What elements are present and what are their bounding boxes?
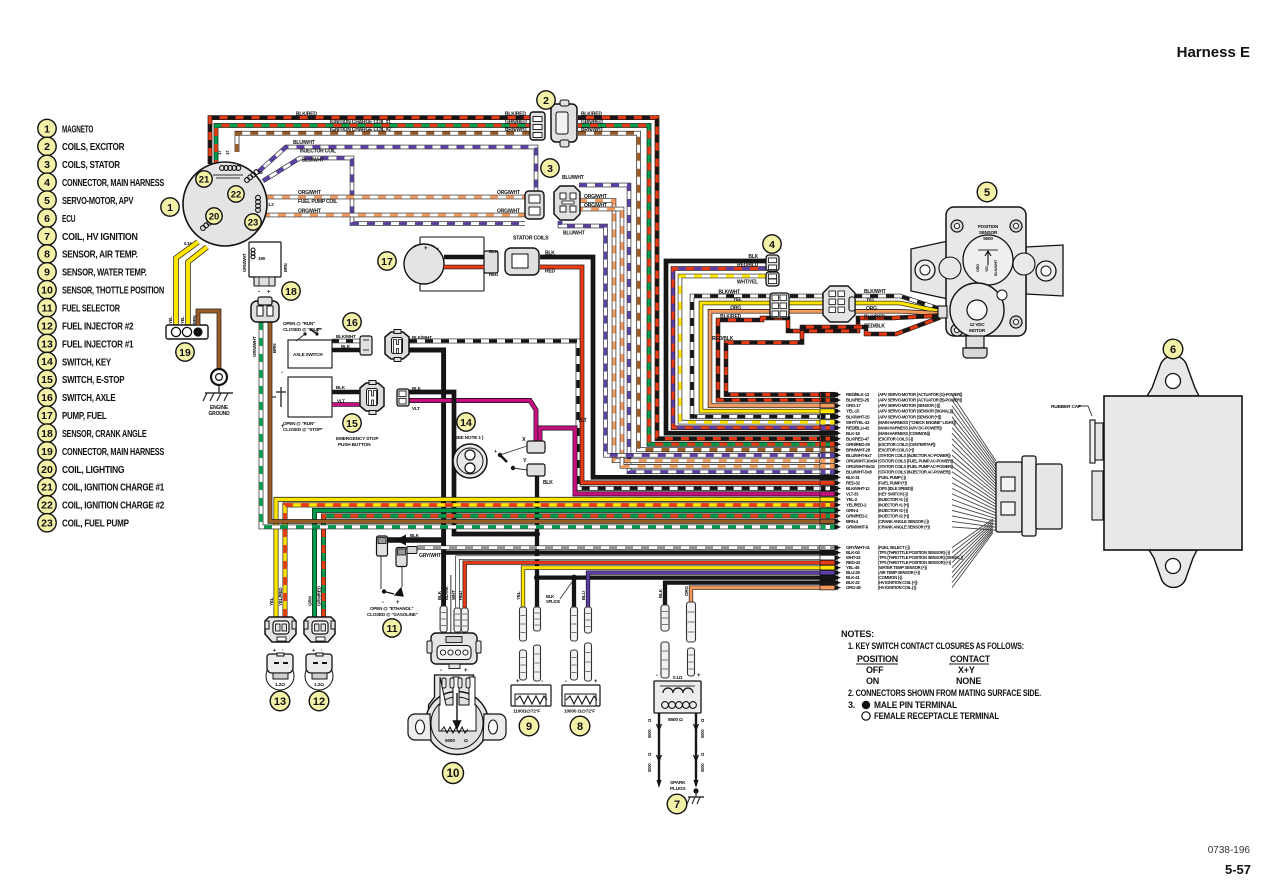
svg-text:IGNITION CHARGE COIL #2: IGNITION CHARGE COIL #2 xyxy=(330,127,391,133)
svg-text:2: 2 xyxy=(543,95,549,107)
svg-text:MAGNETO: MAGNETO xyxy=(62,124,93,135)
sensor water temp (9) xyxy=(520,607,527,641)
svg-text:17: 17 xyxy=(225,150,230,155)
svg-text:VLT: VLT xyxy=(412,406,420,411)
wire ORG/WHT fuel pump coil lower xyxy=(266,213,525,218)
svg-text:12: 12 xyxy=(313,696,325,708)
svg-text:EMERGENCY STOP: EMERGENCY STOP xyxy=(336,436,379,442)
svg-text:15: 15 xyxy=(41,374,53,386)
svg-text:BLK: BLK xyxy=(543,480,553,486)
svg-text:BLK: BLK xyxy=(341,344,351,349)
svg-text:21: 21 xyxy=(199,174,210,185)
svg-text:SENSOR, AIR TEMP.: SENSOR, AIR TEMP. xyxy=(62,250,138,261)
svg-text:-: - xyxy=(541,679,543,685)
key switch X terminal xyxy=(527,441,545,453)
svg-text:1: 1 xyxy=(167,202,173,214)
svg-text:COILS, STATOR: COILS, STATOR xyxy=(62,160,121,171)
svg-text:( SEE NOTE 1 ): ( SEE NOTE 1 ) xyxy=(452,435,484,441)
pump wires short xyxy=(444,255,484,260)
svg-text:190: 190 xyxy=(258,256,266,261)
svg-text:6: 6 xyxy=(1170,344,1176,356)
svg-text:16: 16 xyxy=(41,392,53,404)
svg-text:VLT: VLT xyxy=(578,418,587,424)
svg-text:BLK/WHT: BLK/WHT xyxy=(718,290,740,296)
svg-text:14: 14 xyxy=(460,417,472,429)
svg-text:Ω: Ω xyxy=(464,738,468,744)
svg-text:ON: ON xyxy=(866,676,879,686)
svg-text:ORG-17: ORG-17 xyxy=(846,403,861,408)
svg-text:12 VDC: 12 VDC xyxy=(970,322,986,327)
svg-text:(APV SERVO-MOTOR (SENSOR (-))): (APV SERVO-MOTOR (SENSOR (-))) xyxy=(878,403,941,408)
wire BLK splice drops to sensors xyxy=(535,578,539,607)
svg-text:ORG/WHT-10x04: ORG/WHT-10x04 xyxy=(846,458,878,463)
node 1 label magneto xyxy=(161,198,179,216)
wire BLK/WHT servo sensor+ to ECU row 5 xyxy=(692,296,940,417)
svg-text:(FUEL PUMP (+)): (FUEL PUMP (+)) xyxy=(878,480,908,485)
svg-text:NONE: NONE xyxy=(956,676,981,686)
wire BLK HV ignition coil to ECU lower row 8 xyxy=(665,583,838,605)
engine ground symbol xyxy=(218,385,220,393)
svg-text:13: 13 xyxy=(274,696,286,708)
axle switch wires to connector xyxy=(332,339,361,344)
svg-text:SERVO-MOTOR, APV: SERVO-MOTOR, APV xyxy=(62,196,134,207)
wire RED/BLK servo actuator G to ECU row 1 xyxy=(726,318,940,395)
svg-text:20: 20 xyxy=(41,464,53,476)
switch axle (16) box xyxy=(288,340,332,368)
svg-text:(APV SERVO-MOTOR (SENSOR (SIGN: (APV SERVO-MOTOR (SENSOR (SIGNAL))) xyxy=(878,409,954,414)
svg-text:-: - xyxy=(565,679,567,685)
TPS wire terminals xyxy=(440,606,447,632)
svg-text:(STATOR COILS (INJECTOR AC-POW: (STATOR COILS (INJECTOR AC-POWER)) xyxy=(878,453,951,458)
svg-text:(MAIN HARNESS (COMMON)): (MAIN HARNESS (COMMON)) xyxy=(878,431,931,436)
svg-text:BLK/WHT: BLK/WHT xyxy=(336,334,356,339)
svg-text:BLK/RED: BLK/RED xyxy=(581,112,602,118)
svg-text:YEL-2: YEL-2 xyxy=(846,497,858,502)
svg-text:GRN/RED: GRN/RED xyxy=(317,585,322,606)
wire BLK/RED ignition charge coil #1 (magneto to connector 2 to ECU) xyxy=(210,118,532,164)
svg-text:(FUEL PUMP (-)): (FUEL PUMP (-)) xyxy=(878,475,907,480)
svg-text:23: 23 xyxy=(41,518,53,530)
connector axle switch small half xyxy=(360,336,372,355)
svg-text:GRN/RED-2: GRN/RED-2 xyxy=(846,514,868,519)
svg-text:15: 15 xyxy=(346,418,358,430)
svg-text:BLK: BLK xyxy=(545,251,555,257)
svg-text:1. KEY SWITCH CONTACT CLOSURES: 1. KEY SWITCH CONTACT CLOSURES AS FOLLOW… xyxy=(848,641,1024,651)
svg-text:18: 18 xyxy=(285,286,297,298)
svg-text:BLK-31: BLK-31 xyxy=(846,475,860,480)
connector 2 main harness half xyxy=(530,112,545,140)
axle switch contacts xyxy=(303,332,306,335)
svg-text:COIL, LIGHTING: COIL, LIGHTING xyxy=(62,465,125,476)
svg-text:IGNITION CHARGE COIL #1: IGNITION CHARGE COIL #1 xyxy=(330,120,391,126)
svg-text:(INJECTOR #2 (-)): (INJECTOR #2 (-)) xyxy=(878,508,909,513)
sensor crank angle (18) box xyxy=(249,242,281,277)
svg-text:17: 17 xyxy=(41,410,53,422)
svg-text:BRN/WHT: BRN/WHT xyxy=(581,127,603,133)
svg-text:(DPS (IDLE SPEED)): (DPS (IDLE SPEED)) xyxy=(878,486,914,491)
svg-text:FUEL PUMP COIL: FUEL PUMP COIL xyxy=(298,199,337,205)
fuel selector (11) connectors xyxy=(377,535,418,567)
wire BRN/WHT ignition charge coil #2 xyxy=(237,133,532,152)
wire RED fuel pump to ECU row 17 xyxy=(540,267,838,483)
svg-text:BRN/WHT: BRN/WHT xyxy=(505,127,527,133)
svg-text:VLT: VLT xyxy=(337,399,345,404)
svg-text:5: 5 xyxy=(44,195,50,207)
svg-text:14: 14 xyxy=(41,356,53,368)
wire BLK/WHT axle switch to ECU row 18 xyxy=(409,341,838,488)
svg-text:BLK/WHT-25: BLK/WHT-25 xyxy=(846,414,870,419)
svg-text:(APV SERVO-MOTOR (ACTUATOR (B): (APV SERVO-MOTOR (ACTUATOR (B)-POWER)) xyxy=(878,398,963,403)
coil 21 ignition charge #1 symbol xyxy=(220,166,241,171)
wire YEL injector #1 to ECU row 20 xyxy=(276,499,838,617)
HV coil spark plug leads xyxy=(658,713,660,780)
svg-text:BLK: BLK xyxy=(412,386,422,391)
svg-text:SWITCH, AXLE: SWITCH, AXLE xyxy=(62,393,116,404)
wire YEL/RED injector #1 to ECU row 21 xyxy=(285,505,838,617)
svg-text:8500 Ω: 8500 Ω xyxy=(668,717,683,723)
svg-text:19: 19 xyxy=(41,446,53,458)
svg-text:GRN/WHT-8: GRN/WHT-8 xyxy=(846,525,869,530)
svg-text:BLK/WHT: BLK/WHT xyxy=(864,289,886,295)
svg-text:1.2Ω: 1.2Ω xyxy=(275,682,285,688)
svg-text:11: 11 xyxy=(41,302,52,314)
HV coil windings xyxy=(660,686,696,708)
svg-text:0.1Ω: 0.1Ω xyxy=(673,675,683,680)
svg-text:Y: Y xyxy=(523,458,527,464)
switch key (14) xyxy=(457,413,475,431)
svg-text:(EXCITOR COILS (CENTER/TAP)): (EXCITOR COILS (CENTER/TAP)) xyxy=(878,442,936,447)
svg-text:SENSOR: SENSOR xyxy=(979,230,998,235)
wire ORG HV ignition coil to ECU lower row 9 xyxy=(691,588,838,602)
svg-text:16: 16 xyxy=(346,317,358,329)
svg-text:CONNECTOR, MAIN HARNESS: CONNECTOR, MAIN HARNESS xyxy=(62,178,164,189)
svg-text:Harness E: Harness E xyxy=(1177,44,1250,61)
svg-text:ORG/WHT: ORG/WHT xyxy=(298,209,321,215)
svg-text:RUBBER CAP: RUBBER CAP xyxy=(1051,404,1082,410)
svg-text:NOTES:: NOTES: xyxy=(841,629,874,639)
servo-motor APV (5) xyxy=(911,207,1063,358)
svg-text:(INJECTOR #1 (+)): (INJECTOR #1 (+)) xyxy=(878,503,910,508)
svg-text:-: - xyxy=(440,668,442,674)
wire BLU/WHT injector coil upper xyxy=(258,147,536,192)
svg-text:4: 4 xyxy=(44,177,50,189)
svg-text:ORG/WHT: ORG/WHT xyxy=(497,209,520,215)
svg-text:+: + xyxy=(312,648,315,654)
svg-text:RED/BLK-13: RED/BLK-13 xyxy=(846,392,870,397)
svg-text:CLOSED @ "GASOLINE": CLOSED @ "GASOLINE" xyxy=(367,612,418,617)
wire GRY/WHT fuel selector to ECU xyxy=(417,545,838,549)
svg-text:BLK/RED-25: BLK/RED-25 xyxy=(846,398,870,403)
svg-text:1100Ω@72°F: 1100Ω@72°F xyxy=(513,709,540,715)
wire BLK fuel selector junction xyxy=(388,537,444,543)
svg-text:4: 4 xyxy=(769,239,775,251)
svg-text:10000 Ω@72°F: 10000 Ω@72°F xyxy=(564,709,595,715)
svg-text:1.2: 1.2 xyxy=(268,202,274,207)
svg-text:YEL: YEL xyxy=(733,297,742,303)
svg-text:POSITION: POSITION xyxy=(857,654,898,664)
wire RED TPS to ECU lower row 4 xyxy=(465,563,838,633)
svg-text:GRN/WHT: GRN/WHT xyxy=(252,336,257,357)
sensor throttle position (10) connector xyxy=(427,633,481,669)
svg-text:(STATOR COILS (INJECTOR AC-POW: (STATOR COILS (INJECTOR AC-POWER)) xyxy=(878,469,951,474)
svg-text:19: 19 xyxy=(258,170,263,175)
svg-text:CLOSED @ "IDLE": CLOSED @ "IDLE" xyxy=(283,327,321,332)
svg-text:7: 7 xyxy=(44,231,50,243)
svg-text:(APV SERVO-MOTOR (SENSOR (+))): (APV SERVO-MOTOR (SENSOR (+))) xyxy=(878,414,942,419)
svg-text:COIL, IGNITION CHARGE #2: COIL, IGNITION CHARGE #2 xyxy=(62,501,164,512)
wire BRN crank angle sensor to ECU row 24 xyxy=(270,322,838,521)
svg-text:5000: 5000 xyxy=(445,738,455,744)
svg-text:WHT/YEL-43: WHT/YEL-43 xyxy=(846,420,870,425)
svg-text:BLK/WHT-12: BLK/WHT-12 xyxy=(846,486,870,491)
wire GRN/RED injector #2 to ECU row 23 xyxy=(324,516,839,617)
connector 2 mating half xyxy=(551,100,577,147)
wire BLK fuel pump to ECU row 16 xyxy=(540,257,838,477)
svg-text:RED/BLU-42: RED/BLU-42 xyxy=(846,425,870,430)
svg-text:BLU/WHT: BLU/WHT xyxy=(302,158,324,164)
svg-text:5000: 5000 xyxy=(700,729,705,738)
svg-text:SWITCH, E-STOP: SWITCH, E-STOP xyxy=(62,375,125,386)
svg-text:PUSH BUTTON: PUSH BUTTON xyxy=(338,442,371,448)
svg-text:GRN/RED: GRN/RED xyxy=(581,120,603,126)
connector servo first half xyxy=(770,293,789,318)
svg-text:BLK: BLK xyxy=(336,385,346,390)
svg-text:ORG/WHT: ORG/WHT xyxy=(584,203,607,209)
svg-text:FEMALE RECEPTACLE TERMINAL: FEMALE RECEPTACLE TERMINAL xyxy=(874,711,1000,721)
engine ground ring terminal xyxy=(211,369,227,385)
svg-text:-: - xyxy=(281,370,283,376)
svg-text:BRN: BRN xyxy=(283,263,288,272)
svg-text:BLK: BLK xyxy=(437,590,442,600)
svg-text:ORG-45: ORG-45 xyxy=(846,585,861,590)
coil 22 ignition charge #2 symbol xyxy=(244,169,260,184)
wire BLK/RED servo actuator B to ECU row 2 xyxy=(718,316,940,401)
svg-text:8: 8 xyxy=(44,249,50,261)
svg-text:BLU/WHT: BLU/WHT xyxy=(562,175,584,181)
svg-text:ORG: ORG xyxy=(730,306,741,312)
svg-text:12: 12 xyxy=(41,320,53,332)
coil HV ignition (7) xyxy=(661,605,669,631)
wire BLU/WHT injector coil lower loop xyxy=(263,158,525,224)
svg-text:8: 8 xyxy=(577,721,583,733)
svg-text:ORG/WHT: ORG/WHT xyxy=(584,194,607,200)
wire ORG/WHT stator to ECU row 14 xyxy=(579,209,838,466)
svg-text:RED: RED xyxy=(458,590,463,600)
coil 20 lighting coil symbol xyxy=(200,217,216,232)
TPS body xyxy=(408,675,506,755)
svg-text:BLK: BLK xyxy=(658,588,663,598)
connector servo mating half xyxy=(823,286,855,322)
wire BLK key switch Y to splice xyxy=(537,470,838,578)
connector 18 mating half xyxy=(251,297,279,322)
svg-text:BLK/RED: BLK/RED xyxy=(505,112,526,118)
wire YEL lighting coil B xyxy=(188,247,207,327)
svg-text:7: 7 xyxy=(674,799,680,811)
svg-text:20: 20 xyxy=(209,211,220,222)
svg-text:+: + xyxy=(494,449,497,455)
pump connector xyxy=(484,251,498,273)
svg-text:RED/BLU: RED/BLU xyxy=(737,263,758,269)
svg-text:BLK/WHT: BLK/WHT xyxy=(412,335,432,340)
svg-text:5000: 5000 xyxy=(700,763,705,772)
svg-text:10: 10 xyxy=(447,768,460,780)
connector e-stop small half xyxy=(397,389,409,406)
svg-text:BLK: BLK xyxy=(412,348,422,353)
wire BLK TPS to ECU lower row 2 xyxy=(444,550,838,554)
ECU pigtail connector xyxy=(996,456,1062,536)
svg-text:YEL/RED: YEL/RED xyxy=(278,587,283,606)
svg-text:COILS, EXCITOR: COILS, EXCITOR xyxy=(62,142,125,153)
svg-text:2. CONNECTORS SHOWN FROM MATIN: 2. CONNECTORS SHOWN FROM MATING SURFACE … xyxy=(848,688,1041,698)
wire BLK axle switch to TPS junction xyxy=(409,350,444,633)
svg-text:10: 10 xyxy=(41,285,53,297)
pump fuel (17) xyxy=(420,237,484,291)
svg-text:YEL: YEL xyxy=(985,264,989,272)
svg-text:POSITION: POSITION xyxy=(978,224,999,229)
wire WHT/YEL check engine light to ECU row 6 xyxy=(680,276,838,422)
svg-text:1.2Ω: 1.2Ω xyxy=(314,682,324,688)
svg-text:PUMP, FUEL: PUMP, FUEL xyxy=(62,411,107,422)
svg-text:X+Y: X+Y xyxy=(958,665,975,675)
fuel injector #2 (12) xyxy=(304,617,335,642)
svg-text:BLK/WHT: BLK/WHT xyxy=(994,259,998,276)
svg-text:BLU/WHT: BLU/WHT xyxy=(293,140,315,146)
svg-text:GRN: GRN xyxy=(308,596,313,606)
svg-text:FUEL INJECTOR #1: FUEL INJECTOR #1 xyxy=(62,339,134,350)
connector 3 stator half xyxy=(525,191,544,219)
svg-text:FUEL SELECTOR: FUEL SELECTOR xyxy=(62,304,121,315)
svg-text:MALE PIN TERMINAL: MALE PIN TERMINAL xyxy=(874,700,958,710)
svg-text:CONTACT: CONTACT xyxy=(950,654,991,664)
svg-text:(STATOR COILS (FUEL PUMP AC-PO: (STATOR COILS (FUEL PUMP AC-POWER)) xyxy=(878,458,954,463)
svg-text:(MAIN HARNESS (APV DC-POWER)): (MAIN HARNESS (APV DC-POWER)) xyxy=(878,425,942,430)
svg-text:YEL: YEL xyxy=(516,591,521,600)
wire VLT e-stop to key switch xyxy=(409,401,536,443)
svg-text:0738-196: 0738-196 xyxy=(1208,845,1251,856)
svg-text:+: + xyxy=(273,648,276,654)
svg-text:(EXCITOR COILS (+)): (EXCITOR COILS (+)) xyxy=(878,447,915,452)
svg-text:23: 23 xyxy=(248,217,259,228)
svg-text:9: 9 xyxy=(44,267,50,279)
wire WHT TPS signal to ECU lower row 3 xyxy=(458,558,839,633)
svg-text:ORG: ORG xyxy=(976,264,980,272)
fuel injector #1 (13) xyxy=(265,617,296,642)
svg-text:YEL/RED-2: YEL/RED-2 xyxy=(846,503,867,508)
svg-text:5-57: 5-57 xyxy=(1225,862,1251,877)
svg-text:BLANK: BLANK xyxy=(444,586,449,600)
svg-text:11: 11 xyxy=(386,623,397,635)
svg-text:MOTOR: MOTOR xyxy=(969,328,986,333)
wire GRN/RED ignition charge center tap xyxy=(216,126,532,165)
wire ORG/WHT fuel pump coil upper xyxy=(266,195,525,200)
svg-text:ORG: ORG xyxy=(684,586,689,596)
wire YEL servo sensor signal to ECU row 4 xyxy=(701,303,940,411)
servo position sensor resistor symbol xyxy=(978,249,998,251)
svg-text:BLK/RED: BLK/RED xyxy=(864,315,885,321)
svg-text:ORG/WHT: ORG/WHT xyxy=(497,190,520,196)
wire YEL lighting coil A xyxy=(176,242,198,327)
switch e-stop (15) box xyxy=(288,377,332,417)
svg-text:WHT/YEL: WHT/YEL xyxy=(737,280,758,286)
wire BLU/WHT stator to ECU row 12 xyxy=(560,221,838,455)
svg-text:YEL: YEL xyxy=(866,298,875,304)
spark plug ground xyxy=(693,788,698,793)
svg-text:17: 17 xyxy=(217,150,222,155)
svg-text:YEL: YEL xyxy=(168,316,173,324)
svg-text:SENSOR, THOTTLE POSITION: SENSOR, THOTTLE POSITION xyxy=(62,286,164,297)
svg-text:3: 3 xyxy=(44,159,50,171)
svg-text:(CRANK ANGLE SENSOR (+)): (CRANK ANGLE SENSOR (+)) xyxy=(878,525,931,530)
wire YEL water temp sensor to ECU lower row 5 xyxy=(523,568,838,607)
svg-text:OPEN @ "ETHANOL": OPEN @ "ETHANOL" xyxy=(370,606,413,611)
svg-text:OPEN @ "RUN": OPEN @ "RUN" xyxy=(283,421,315,426)
svg-text:BRN-4: BRN-4 xyxy=(846,519,859,524)
svg-text:BRN: BRN xyxy=(272,343,277,353)
svg-text:GRN/RED-29: GRN/RED-29 xyxy=(846,442,870,447)
e-stop wires to connector xyxy=(332,390,360,395)
svg-text:21: 21 xyxy=(41,482,53,494)
wire GRN injector #2 to ECU row 22 xyxy=(315,510,839,617)
wire VLT key switch to ECU row 19 xyxy=(540,428,838,494)
svg-text:COIL, HV IGNITION: COIL, HV IGNITION xyxy=(62,232,138,243)
svg-text:(KEY SWITCH (-)): (KEY SWITCH (-)) xyxy=(878,491,908,496)
svg-text:RED: RED xyxy=(489,272,499,277)
wire RED/BLU main harness APV power to ECU row 7 xyxy=(673,269,838,428)
svg-text:GROUND: GROUND xyxy=(208,411,230,417)
svg-text:(INJECTOR #2 (+)): (INJECTOR #2 (+)) xyxy=(878,514,910,519)
svg-text:5000: 5000 xyxy=(647,763,652,772)
ECU pigtail wire labels upper group xyxy=(820,392,841,397)
svg-text:OFF: OFF xyxy=(866,665,884,675)
connector axle switch mating half xyxy=(385,330,409,362)
wire BLK e-stop switch run xyxy=(409,392,537,534)
svg-text:COIL, FUEL PUMP: COIL, FUEL PUMP xyxy=(62,519,129,530)
wire BLU air temp sensor to ECU lower row 6 xyxy=(588,573,838,607)
svg-text:13: 13 xyxy=(41,338,53,350)
svg-text:GRN/RED: GRN/RED xyxy=(505,120,527,126)
svg-text:FUEL INJECTOR #2: FUEL INJECTOR #2 xyxy=(62,321,134,332)
svg-text:SWITCH, KEY: SWITCH, KEY xyxy=(62,357,111,368)
svg-text:BLU/WHT-5x8: BLU/WHT-5x8 xyxy=(846,469,872,474)
svg-text:ORG/WHT-9x02: ORG/WHT-9x02 xyxy=(846,464,875,469)
svg-text:-: - xyxy=(437,246,439,252)
svg-text:YEL: YEL xyxy=(180,316,185,324)
connector 19 main harness xyxy=(166,325,208,339)
coil 23 fuel pump coil symbol xyxy=(256,195,261,212)
svg-text:SPLICE: SPLICE xyxy=(546,599,560,604)
svg-text:GRN-4: GRN-4 xyxy=(846,508,859,513)
svg-text:BLK/RED: BLK/RED xyxy=(720,314,741,320)
svg-text:(CRANK ANGLE SENSOR (-)): (CRANK ANGLE SENSOR (-)) xyxy=(878,519,929,524)
svg-text:ORG: ORG xyxy=(866,306,877,312)
svg-text:18: 18 xyxy=(41,428,53,440)
svg-text:SENSOR, CRANK ANGLE: SENSOR, CRANK ANGLE xyxy=(62,429,147,440)
svg-text:GRY/WHT: GRY/WHT xyxy=(419,553,441,559)
svg-text:BLU: BLU xyxy=(581,590,586,600)
connector 4 main harness xyxy=(766,255,779,286)
svg-text:BLU/WHT: BLU/WHT xyxy=(563,231,585,237)
connector e-stop mating half xyxy=(360,381,384,415)
svg-text:9: 9 xyxy=(526,721,532,733)
svg-text:RED: RED xyxy=(545,269,556,275)
ECU pigtail wire labels lower group xyxy=(820,545,841,550)
svg-text:BRN/WHT-28: BRN/WHT-28 xyxy=(846,447,871,452)
svg-text:AXLE SWITCH: AXLE SWITCH xyxy=(293,352,323,357)
svg-text:19: 19 xyxy=(179,347,191,359)
svg-text:(STATOR COILS (FUEL PUMP AC-PO: (STATOR COILS (FUEL PUMP AC-POWER)) xyxy=(878,464,954,469)
svg-text:(APV SERVO-MOTOR (ACTUATOR (G): (APV SERVO-MOTOR (ACTUATOR (G)-POWER)) xyxy=(878,392,963,397)
fuel selector switch symbol xyxy=(380,556,382,589)
